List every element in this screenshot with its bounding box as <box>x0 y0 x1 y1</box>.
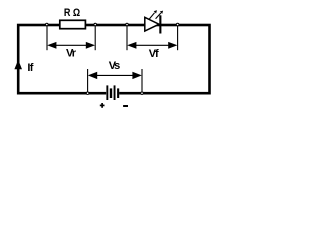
svg-text:R Ω: R Ω <box>64 7 80 19</box>
svg-text:Vs: Vs <box>109 60 121 72</box>
svg-text:Vf: Vf <box>149 48 159 60</box>
svg-text:If: If <box>27 62 33 74</box>
svg-text:Vr: Vr <box>66 48 77 60</box>
